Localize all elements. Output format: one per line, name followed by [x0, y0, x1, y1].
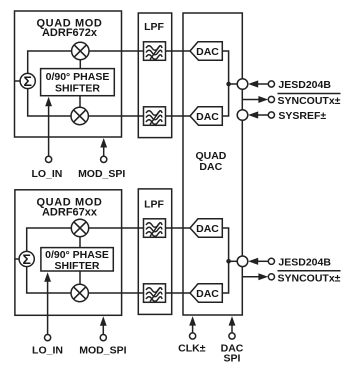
svg-text:SPI: SPI: [224, 352, 241, 364]
DAC4 converter: [190, 284, 222, 303]
wire: filter FL1 to DAC1: [166, 50, 191, 52]
quad DAC block U3: [183, 13, 242, 315]
wire: summer S2 top to mixer M3: [27, 228, 72, 251]
mixer M1: [72, 42, 89, 59]
quad mod block U1 (ADRF672x): [15, 11, 122, 137]
terminal LO_IN (U1) wire and arrowhead into phase shifter: [48, 105, 50, 156]
DAC3 converter: [190, 219, 222, 238]
svg-text:DAC: DAC: [199, 161, 222, 173]
wire: SYNCOUT (bottom) out of U3: [242, 276, 258, 278]
svg-text:JESD204B: JESD204B: [278, 79, 331, 91]
arrow into JESD204B pin (bottom): [258, 260, 268, 262]
svg-text:SYNCOUTx±: SYNCOUTx±: [278, 273, 341, 285]
terminal circle LO_IN (U2): [45, 335, 51, 341]
terminal circle SYNCOUTx (top): [268, 96, 274, 102]
terminal circle SYNCOUTx (bottom): [268, 274, 274, 280]
svg-text:Σ: Σ: [23, 73, 31, 89]
svg-text:DAC: DAC: [196, 288, 219, 300]
svg-text:ADRF672x: ADRF672x: [42, 27, 98, 39]
terminal circle JESD204B (top): [268, 81, 274, 87]
quad mod block U2 (ADRF67xx): [15, 190, 122, 315]
svg-text:DAC: DAC: [196, 111, 219, 123]
wire: filter FL4 to DAC4: [166, 292, 191, 294]
terminal MOD_SPI (U2) wire and arrowhead: [102, 325, 104, 335]
filter FL3: [144, 219, 166, 238]
arrowhead SYNCOUT (bottom): [258, 273, 268, 280]
svg-text:ADRF67xx: ADRF67xx: [42, 206, 98, 218]
terminal circle DAC SPI: [229, 333, 235, 339]
summer S2: [19, 251, 34, 266]
terminal DAC SPI wire and arrowhead into U3: [231, 326, 233, 334]
LPF block 1: [138, 13, 171, 138]
terminal circle LO_IN (U1): [46, 156, 52, 162]
pin circle SYSREF (top): [237, 110, 248, 121]
arrow into SYSREF pin: [258, 114, 268, 116]
pin circle JESD204B (bottom): [237, 256, 248, 267]
filter FL4: [144, 284, 166, 303]
terminal circle SYSREF: [268, 112, 274, 118]
overline SYNCOUTx (top): [278, 93, 341, 95]
wire: summer top up and right to mixer M1: [28, 51, 72, 73]
svg-text:SYSREF±: SYSREF±: [278, 110, 326, 122]
terminal circle MOD_SPI (U2): [100, 335, 106, 341]
svg-text:MOD_SPI: MOD_SPI: [79, 345, 126, 357]
filter FL1: [144, 42, 166, 61]
wire: mixer M2 to LPF filter FL2: [88, 115, 143, 117]
DAC1 converter: [190, 42, 222, 61]
summer S1: [20, 73, 35, 88]
svg-text:CLK±: CLK±: [178, 343, 206, 355]
phase shifter box (U2): [41, 248, 113, 271]
svg-text:LO_IN: LO_IN: [32, 345, 63, 357]
wire: DAC1/DAC2 outputs joined vertically: [222, 51, 228, 116]
arrow into JESD204B pin (top): [258, 83, 268, 85]
wire: mixer M3 down to phase shifter (U2): [79, 237, 81, 248]
terminal circle JESD204B (bottom): [268, 258, 274, 264]
svg-text:Σ: Σ: [22, 251, 30, 267]
wire: phase shifter down to mixer M2: [79, 96, 81, 108]
wire: filter FL2 to DAC2: [166, 115, 191, 117]
wire: U2 left edge to summer S2: [15, 258, 19, 260]
wire: U1 left edge to summer: [15, 80, 21, 82]
svg-text:JESD204B: JESD204B: [278, 256, 331, 268]
svg-text:LPF: LPF: [144, 21, 164, 33]
wire: junction to JESD pin circle (bottom): [229, 260, 238, 262]
wire: DAC3/DAC4 outputs joined vertically: [222, 228, 228, 293]
filter FL2: [144, 107, 166, 126]
LPF block 2: [138, 189, 171, 315]
mixer M4: [71, 284, 88, 301]
terminal MOD_SPI (U1) wire and arrowhead into U1: [103, 147, 105, 157]
wire: phase shifter (U2) down to mixer M4: [79, 271, 81, 284]
terminal CLK wire and arrowhead into U3: [192, 326, 194, 334]
DAC2 converter: [190, 107, 222, 126]
wire: mixer M1 to LPF filter FL1: [89, 50, 144, 52]
pin circle JESD204B (top): [237, 79, 248, 90]
wire: mixer M3 to filter FL3: [89, 227, 144, 229]
mixer M3: [71, 219, 88, 236]
overline SYNCOUTx (bottom): [278, 270, 341, 272]
wire: summer S2 bottom to mixer M4: [27, 267, 71, 293]
svg-text:LO_IN: LO_IN: [31, 168, 62, 180]
svg-text:DAC: DAC: [196, 46, 219, 58]
svg-text:SHIFTER: SHIFTER: [55, 260, 100, 272]
svg-text:LPF: LPF: [144, 199, 164, 211]
svg-text:MOD_SPI: MOD_SPI: [78, 168, 125, 180]
svg-text:SYNCOUTx±: SYNCOUTx±: [278, 95, 341, 107]
wire: mixer M1 down to phase shifter: [79, 60, 81, 69]
arrowhead SYNCOUT (top): [258, 96, 268, 103]
svg-text:0/90° PHASE: 0/90° PHASE: [46, 71, 110, 83]
wire: SYNCOUT (top) out of U3: [242, 99, 258, 101]
phase shifter box (U1): [41, 69, 115, 96]
terminal circle MOD_SPI (U1): [101, 156, 107, 162]
wire: mixer M4 to filter FL4: [89, 292, 144, 294]
terminal LO_IN (U2) wire and arrowhead: [47, 281, 49, 335]
junction node (top group): [226, 82, 231, 87]
svg-text:SHIFTER: SHIFTER: [55, 83, 100, 95]
wire: filter FL3 to DAC3: [166, 227, 191, 229]
wire: summer bottom down and right to mixer M2: [28, 89, 71, 116]
terminal circle CLK: [190, 333, 196, 339]
svg-text:DAC: DAC: [196, 223, 219, 235]
junction node (bottom group): [226, 259, 231, 264]
mixer M2: [71, 107, 88, 124]
wire: junction to JESD pin circle: [229, 83, 238, 85]
